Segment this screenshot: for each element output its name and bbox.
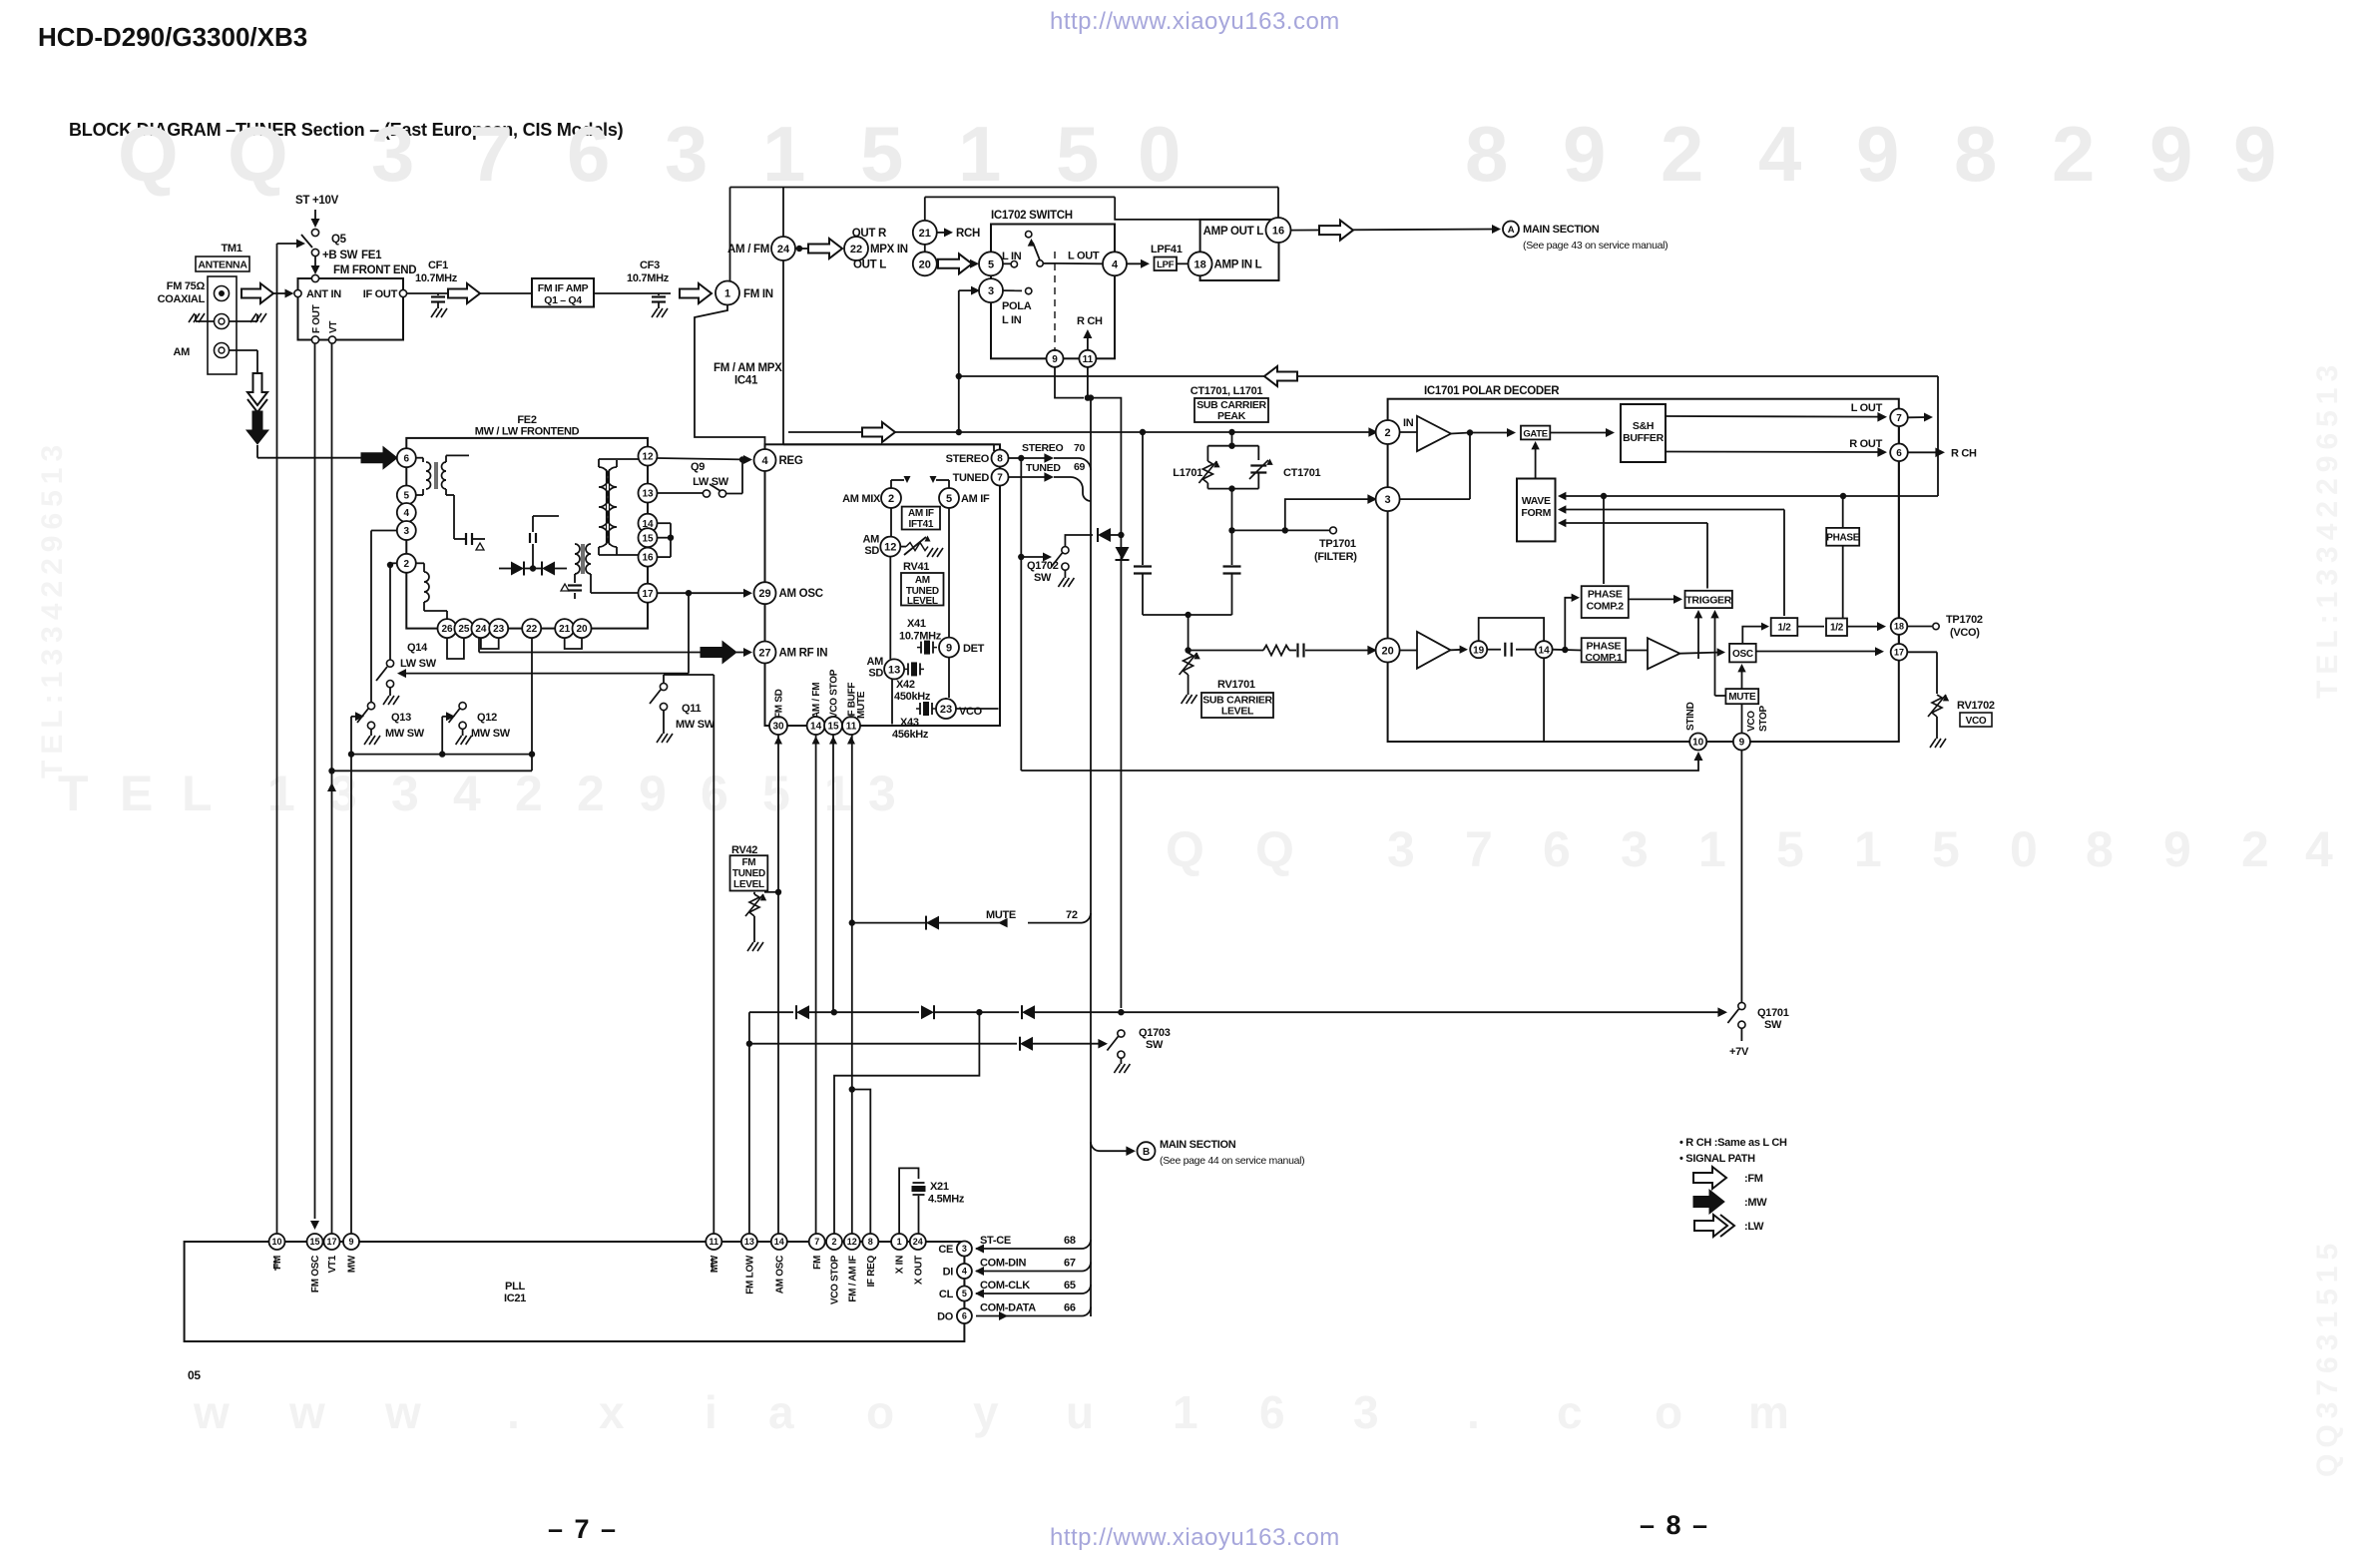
label MUTE rotated pin11 bbox=[856, 691, 867, 719]
transistor switch Q5 bbox=[301, 229, 319, 256]
svg-text:4: 4 bbox=[404, 508, 410, 519]
pin 9 MW of PLL IC21 bbox=[343, 1234, 359, 1273]
pin 14 of IC1701 inner bbox=[1536, 641, 1553, 658]
svg-text:9: 9 bbox=[2149, 110, 2192, 198]
wire pins 9-11 to R CH node bbox=[1055, 367, 1121, 1008]
transformer T1 of FE2 bbox=[416, 455, 469, 495]
transistor switch Q1701 SW bbox=[1727, 1002, 1788, 1058]
pin 24 of FE2 bbox=[471, 619, 490, 638]
label Q12 MW SW bbox=[471, 712, 511, 740]
wire AM jack down bbox=[229, 350, 257, 373]
svg-text:LPF: LPF bbox=[1157, 259, 1175, 270]
wire Q5 to FE1 bbox=[311, 257, 320, 274]
wire waveform input A bbox=[1558, 492, 1938, 500]
svg-text:OSC: OSC bbox=[1732, 649, 1753, 660]
svg-text:Q1702: Q1702 bbox=[1027, 560, 1059, 572]
block PLL IC21 bbox=[185, 1242, 965, 1341]
svg-text:7: 7 bbox=[814, 1237, 819, 1247]
pin 6 R OUT of IC1701 bbox=[1890, 444, 1908, 462]
svg-text:VT1: VT1 bbox=[327, 1255, 338, 1273]
switch inside IC1702 bbox=[1003, 232, 1055, 267]
wire COM-DIN 67 bbox=[975, 1258, 1091, 1277]
svg-text:– 8 –: – 8 – bbox=[1640, 1510, 1709, 1540]
svg-text:ANTENNA: ANTENNA bbox=[198, 259, 247, 271]
svg-text:i: i bbox=[705, 1386, 717, 1438]
svg-text:MW SW: MW SW bbox=[676, 719, 715, 731]
pin 24 AM/FM of IC41 bbox=[727, 237, 795, 260]
svg-text:8: 8 bbox=[1954, 110, 1997, 198]
svg-text:MW: MW bbox=[710, 1255, 720, 1273]
label FM/AM MPX IC41 bbox=[714, 362, 782, 387]
svg-text:STEREO: STEREO bbox=[1022, 442, 1064, 454]
wire ground bus2 bbox=[332, 770, 533, 772]
wire bus MW to PLL pin9 bbox=[348, 717, 354, 1234]
label VCO STOP rotated bbox=[1746, 706, 1769, 732]
svg-text:S&H: S&H bbox=[1633, 420, 1654, 432]
svg-text:1: 1 bbox=[958, 110, 1001, 198]
wire CF1 to FM IF AMP bbox=[480, 292, 532, 294]
svg-text:20: 20 bbox=[919, 259, 931, 270]
svg-text:L OUT: L OUT bbox=[1851, 402, 1883, 414]
antenna connector block bbox=[208, 276, 237, 374]
pin 15 FM OSC of PLL IC21 bbox=[307, 1234, 323, 1293]
pin 2 VCO STOP of PLL IC21 bbox=[826, 1234, 842, 1304]
svg-text:FM IF AMP: FM IF AMP bbox=[538, 282, 589, 294]
wire between dividers bbox=[1797, 626, 1824, 628]
wire IF REQ jog bbox=[852, 1090, 871, 1235]
svg-text:FM: FM bbox=[272, 1256, 283, 1270]
svg-text::LW: :LW bbox=[1744, 1221, 1764, 1233]
wire phasecomp2 riser bbox=[1603, 496, 1605, 584]
wire MPX to pin8 bbox=[783, 444, 994, 451]
svg-text:CL: CL bbox=[939, 1289, 954, 1300]
svg-text:AM RF IN: AM RF IN bbox=[779, 648, 828, 660]
svg-text:VT: VT bbox=[328, 321, 339, 333]
wire POLA feed bbox=[959, 286, 980, 295]
svg-text:5: 5 bbox=[988, 259, 994, 270]
pin 14 of FE2 bbox=[639, 514, 658, 533]
wire OSC to pin17 bbox=[1756, 647, 1884, 656]
ground at antenna left bbox=[189, 313, 214, 322]
svg-text:9: 9 bbox=[1563, 110, 1606, 198]
svg-text:TEL:13342296513: TEL:13342296513 bbox=[36, 439, 69, 778]
crystal X41 10.7MHz bbox=[899, 618, 942, 655]
svg-text:LEVEL: LEVEL bbox=[907, 596, 938, 607]
svg-text:(See page 43 on service manual: (See page 43 on service manual) bbox=[1523, 240, 1667, 252]
pin 4 REG of IC41 bbox=[754, 449, 803, 471]
wire main control bus bbox=[1088, 394, 1094, 1316]
svg-text:STOP: STOP bbox=[1758, 706, 1769, 732]
svg-text:Q: Q bbox=[1166, 821, 1204, 877]
svg-text:FE1: FE1 bbox=[361, 250, 382, 261]
pin 5 of FE2 bbox=[397, 486, 416, 505]
svg-text:DI: DI bbox=[943, 1267, 954, 1279]
svg-text:72: 72 bbox=[1066, 909, 1078, 921]
svg-text:8: 8 bbox=[997, 454, 1003, 465]
wire TP junction to pin3 bbox=[1285, 494, 1377, 530]
label CT1701 L1701 bbox=[1190, 385, 1263, 397]
signal path arrow FM from antenna bbox=[241, 283, 273, 303]
wire link CE-DI-CL-DO bbox=[963, 1257, 965, 1309]
svg-text:AM / FM: AM / FM bbox=[811, 683, 822, 719]
svg-text:5: 5 bbox=[860, 110, 903, 198]
pin 3 CE of PLL IC21 bbox=[938, 1242, 972, 1257]
wire TUNED 69 bbox=[1009, 461, 1092, 501]
svg-text:Q1701: Q1701 bbox=[1757, 1007, 1789, 1019]
svg-text:7: 7 bbox=[469, 110, 512, 198]
svg-text:6: 6 bbox=[1896, 448, 1902, 459]
svg-text:http://www.xiaoyu163.com: http://www.xiaoyu163.com bbox=[1050, 8, 1340, 35]
svg-text:1/2: 1/2 bbox=[1777, 623, 1791, 634]
svg-text:4: 4 bbox=[962, 1267, 967, 1277]
pin 18 of IC1701 bbox=[1891, 618, 1908, 635]
wire PC2 to TRIGGER bbox=[1629, 595, 1682, 604]
block PHASE bbox=[1826, 528, 1860, 546]
wire FE2 pin12 to REG bbox=[658, 455, 753, 464]
svg-text:20: 20 bbox=[576, 624, 588, 635]
block FE1 FM front end bbox=[298, 278, 404, 340]
pin 10 STIND of IC1701 bbox=[1689, 734, 1706, 751]
svg-text:F OUT: F OUT bbox=[311, 304, 322, 333]
signal path arrow FM after CF1 bbox=[448, 283, 480, 303]
svg-text:6: 6 bbox=[567, 110, 610, 198]
svg-text:1: 1 bbox=[267, 766, 295, 821]
dashed mode line of IC1702 bbox=[1054, 252, 1056, 351]
svg-text:17: 17 bbox=[326, 1237, 336, 1247]
pin 29 AM OSC of IC41 bbox=[754, 582, 823, 604]
svg-text:A: A bbox=[1508, 225, 1515, 236]
svg-text:3: 3 bbox=[391, 766, 419, 821]
label Q11 MW SW bbox=[676, 703, 715, 731]
op-amp buffer IN bbox=[1400, 416, 1474, 451]
svg-text:SW: SW bbox=[1034, 572, 1052, 584]
block TRIGGER bbox=[1685, 591, 1732, 608]
svg-text:OUT R: OUT R bbox=[852, 228, 887, 240]
svg-text:.: . bbox=[507, 1386, 520, 1438]
signal path arrow MW into AM RF IN bbox=[701, 642, 752, 664]
label IC1701 POLAR DECODER bbox=[1424, 385, 1560, 397]
pin 23 VCO of IC41 inner bbox=[936, 699, 983, 719]
wire AM RF IN from FE2 bbox=[479, 638, 701, 652]
wire tank to TP1701 bbox=[1228, 489, 1357, 563]
svg-text:DO: DO bbox=[937, 1311, 954, 1323]
svg-text:LEVEL: LEVEL bbox=[1221, 706, 1254, 718]
svg-text:9: 9 bbox=[946, 643, 952, 655]
pin VT of FE1 bbox=[328, 321, 339, 343]
svg-text:21: 21 bbox=[919, 228, 931, 240]
svg-text:10: 10 bbox=[271, 1237, 281, 1247]
pin 24 X OUT of PLL IC21 bbox=[910, 1234, 926, 1285]
pin 20 of FE2 bbox=[573, 619, 592, 638]
wire FE2 pin26-25 U bbox=[447, 638, 464, 659]
tank circuit L1701 CT1701 bbox=[1198, 432, 1272, 492]
wire riser to pin16 AMP OUT bbox=[1277, 188, 1279, 219]
transistor switch Q14 LW SW bbox=[376, 660, 394, 688]
crystal X43 456kHz bbox=[892, 702, 936, 741]
subtitle text bbox=[69, 120, 624, 140]
watermark url top bbox=[1050, 8, 1340, 35]
middle antenna jack bbox=[215, 314, 230, 329]
svg-text:3: 3 bbox=[404, 526, 410, 537]
svg-text:POLA: POLA bbox=[1002, 300, 1032, 312]
svg-text::MW: :MW bbox=[1744, 1197, 1767, 1209]
wire Q14 control line bbox=[397, 669, 689, 678]
svg-text:COM-CLK: COM-CLK bbox=[980, 1280, 1030, 1292]
block IC41 FM/AM MPX bbox=[765, 444, 1001, 726]
pin 1 FM IN of IC41 bbox=[715, 281, 773, 305]
wire PLL pin2 riser bbox=[834, 1012, 979, 1234]
svg-text:SW: SW bbox=[1764, 1019, 1782, 1031]
svg-text:MAIN SECTION: MAIN SECTION bbox=[1523, 224, 1600, 236]
svg-text:X IN: X IN bbox=[895, 1256, 906, 1274]
wire pin4 to LPF bbox=[1127, 259, 1150, 268]
svg-text:15: 15 bbox=[309, 1237, 319, 1247]
svg-text:3: 3 bbox=[329, 766, 357, 821]
svg-text:7: 7 bbox=[1896, 413, 1902, 424]
svg-text:24: 24 bbox=[777, 244, 790, 256]
svg-text:L: L bbox=[182, 766, 213, 821]
svg-text:2: 2 bbox=[577, 766, 605, 821]
svg-text:5: 5 bbox=[1776, 821, 1804, 877]
pin 22 MPX IN of IC1702 bbox=[844, 237, 908, 260]
svg-text:X41: X41 bbox=[907, 618, 926, 630]
svg-text:Q1 – Q4: Q1 – Q4 bbox=[544, 294, 582, 306]
inductor of FE2 oscillator bbox=[416, 563, 447, 619]
svg-text:27: 27 bbox=[758, 647, 770, 659]
svg-text:m: m bbox=[1748, 1386, 1789, 1438]
svg-text:1: 1 bbox=[897, 1237, 902, 1247]
wire riser to pin24 bbox=[782, 188, 784, 238]
svg-text:5: 5 bbox=[1932, 821, 1960, 877]
block label SUB CARRIER PEAK bbox=[1194, 398, 1268, 422]
svg-text:FM / AM MPX: FM / AM MPX bbox=[714, 362, 782, 374]
wire Q1702 feed riser bbox=[1018, 458, 1024, 771]
svg-text:OUT L: OUT L bbox=[853, 259, 886, 271]
wire STIND feed bbox=[1021, 752, 1702, 771]
svg-text:PHASE: PHASE bbox=[1587, 641, 1622, 653]
svg-text:Q11: Q11 bbox=[682, 703, 701, 715]
wire ST+10V down bbox=[311, 210, 320, 228]
svg-text:Q12: Q12 bbox=[477, 712, 497, 724]
svg-text:GATE: GATE bbox=[1523, 428, 1547, 439]
svg-text:LW SW: LW SW bbox=[400, 658, 437, 670]
pin contact POLA bbox=[1002, 287, 1032, 326]
pin 4 of FE2 bbox=[397, 503, 416, 522]
svg-text:TP1701: TP1701 bbox=[1319, 538, 1356, 550]
pin IF OUT of FE1 bbox=[363, 288, 407, 300]
wire pin9 down to Q1701 bbox=[1740, 751, 1742, 1003]
legend R CH note bbox=[1679, 1137, 1787, 1149]
svg-text:BUFFER: BUFFER bbox=[1623, 432, 1664, 444]
wire AM feed to FE2 bbox=[257, 445, 361, 458]
block AMP section bbox=[1200, 220, 1279, 280]
wire FE2 pin13 to Q9 bbox=[658, 492, 704, 494]
svg-text:SW: SW bbox=[1146, 1039, 1164, 1051]
svg-text:– 7 –: – 7 – bbox=[548, 1514, 618, 1544]
pin 4 L OUT of IC1702 bbox=[1103, 252, 1127, 275]
transistor switch Q12 MW SW bbox=[449, 703, 467, 730]
svg-text:QQ37631515: QQ37631515 bbox=[2311, 1238, 2344, 1477]
wire to pin20 with RC bbox=[1189, 644, 1377, 658]
svg-text:AM / FM: AM / FM bbox=[727, 244, 769, 256]
label FM 75ohm COAXIAL bbox=[158, 280, 206, 305]
wire FE2 pin17 AM OSC line bbox=[658, 589, 753, 598]
signal path arrow FM to main bbox=[1319, 221, 1353, 241]
wire 14 to PC1 bbox=[1553, 647, 1582, 653]
label AM bbox=[173, 346, 190, 358]
svg-text:• R CH :Same as L CH: • R CH :Same as L CH bbox=[1679, 1137, 1787, 1149]
block PHASE COMP.1 bbox=[1582, 638, 1626, 664]
divider 1/2 second bbox=[1826, 619, 1847, 637]
svg-text:15: 15 bbox=[642, 533, 654, 544]
node A main section bbox=[1492, 222, 1667, 253]
svg-text:5: 5 bbox=[962, 1289, 967, 1298]
ground below Q13 bbox=[364, 729, 380, 745]
wire GATE from WAVEFORM bbox=[1531, 441, 1539, 479]
svg-text:TUNED: TUNED bbox=[953, 472, 990, 484]
wire top rail from IC41 bbox=[730, 188, 1279, 281]
svg-text:CE: CE bbox=[938, 1244, 953, 1256]
wire pin1 lower path bbox=[695, 305, 765, 449]
transformer T2 of FE2 bbox=[599, 459, 639, 555]
svg-text:B: B bbox=[1143, 1147, 1150, 1158]
pin 17 VT1 of PLL IC21 bbox=[324, 1234, 340, 1273]
svg-text:0: 0 bbox=[1138, 110, 1181, 198]
svg-text:2: 2 bbox=[2241, 821, 2269, 877]
label STIND rotated bbox=[1685, 702, 1696, 731]
svg-text:MAIN SECTION: MAIN SECTION bbox=[1160, 1139, 1236, 1151]
ceramic filter CF1 10.7MHz bbox=[415, 259, 458, 317]
block GATE bbox=[1521, 426, 1550, 440]
svg-text:w: w bbox=[384, 1386, 421, 1438]
crystal X42 450kHz bbox=[894, 662, 931, 703]
label L1701 bbox=[1173, 467, 1202, 479]
svg-text:68: 68 bbox=[1064, 1235, 1076, 1247]
svg-text:MUTE: MUTE bbox=[986, 909, 1016, 921]
svg-text:ST +10V: ST +10V bbox=[295, 195, 339, 207]
svg-text:Q: Q bbox=[1255, 821, 1294, 877]
svg-text:4.5MHz: 4.5MHz bbox=[928, 1194, 965, 1206]
potentiometer RV1702 VCO bbox=[1928, 695, 1995, 748]
pin 3 POLA of IC1702 bbox=[979, 278, 1003, 302]
pin 14 of IC41 bbox=[807, 683, 825, 735]
wire pin17 to RV1702 bbox=[1907, 652, 1937, 694]
svg-text:1: 1 bbox=[1854, 821, 1882, 877]
pin 4 DI of PLL IC21 bbox=[943, 1264, 972, 1279]
FM antenna jack bbox=[215, 286, 230, 301]
svg-text:TEL:13342296513: TEL:13342296513 bbox=[2311, 359, 2344, 699]
signal path arrow FM OUT L bbox=[938, 254, 979, 273]
block PHASE COMP.2 bbox=[1582, 586, 1629, 618]
pin 15 of FE2 bbox=[639, 528, 658, 547]
svg-text:6: 6 bbox=[1543, 821, 1571, 877]
pin 18 AMP IN L bbox=[1189, 252, 1262, 275]
wire OUT R to RCH bbox=[937, 228, 980, 240]
pin 26 of FE2 bbox=[438, 619, 457, 638]
svg-text:AM OSC: AM OSC bbox=[774, 1256, 785, 1294]
svg-text:y: y bbox=[973, 1386, 999, 1438]
wire pin22 riser bbox=[529, 638, 535, 772]
svg-text:14: 14 bbox=[1539, 645, 1551, 656]
svg-text:REG: REG bbox=[779, 455, 803, 467]
svg-text:TUNED: TUNED bbox=[732, 868, 765, 879]
svg-text:11: 11 bbox=[1083, 354, 1094, 365]
wire AM/FM riser bbox=[815, 735, 817, 1235]
svg-text:3: 3 bbox=[1621, 821, 1649, 877]
svg-text:R CH: R CH bbox=[1951, 448, 1977, 460]
svg-text:10.7MHz: 10.7MHz bbox=[899, 631, 942, 643]
svg-text:IC41: IC41 bbox=[734, 375, 758, 387]
svg-text:3: 3 bbox=[868, 766, 896, 821]
pin 12 AM SD of IC41 inner bbox=[862, 534, 900, 558]
svg-text:20: 20 bbox=[1381, 645, 1393, 657]
pin 23 of FE2 bbox=[489, 619, 508, 638]
wire FM bus to Q5 bbox=[277, 240, 306, 249]
svg-text:3: 3 bbox=[962, 1244, 967, 1254]
block IC1702 switch bbox=[991, 225, 1115, 359]
svg-text:AM: AM bbox=[866, 656, 883, 668]
pin 12 FM / AM IF of PLL IC21 bbox=[844, 1234, 860, 1302]
filter LPF41 bbox=[1151, 244, 1190, 270]
wire Q1701 control line bbox=[749, 1005, 1727, 1019]
svg-text:19: 19 bbox=[1473, 645, 1485, 656]
svg-text:X21: X21 bbox=[930, 1181, 949, 1193]
svg-text:X OUT: X OUT bbox=[913, 1256, 924, 1285]
svg-text::FM: :FM bbox=[1744, 1173, 1763, 1185]
svg-text:70: 70 bbox=[1074, 442, 1086, 454]
pin 9 VCO STOP of IC1701 bbox=[1733, 734, 1750, 751]
svg-text:2: 2 bbox=[831, 1237, 836, 1247]
wire R CH output bbox=[1908, 448, 1977, 460]
wire divider to pin18 bbox=[1847, 622, 1886, 631]
signal path arrow FM MPX bbox=[808, 239, 842, 259]
svg-text:IC1702 SWITCH: IC1702 SWITCH bbox=[991, 210, 1073, 222]
svg-text:CT1701, L1701: CT1701, L1701 bbox=[1190, 385, 1263, 397]
svg-text:PEAK: PEAK bbox=[1217, 410, 1246, 422]
svg-text:1: 1 bbox=[1173, 1386, 1198, 1438]
svg-text:2: 2 bbox=[1385, 427, 1391, 439]
wire to GATE bbox=[1470, 428, 1516, 437]
node B main section bbox=[1091, 1139, 1304, 1167]
svg-text:FM / AM IF: FM / AM IF bbox=[847, 1256, 858, 1302]
wire Q12 feed bbox=[442, 712, 455, 754]
svg-text:RV1702: RV1702 bbox=[1957, 700, 1995, 712]
wire L OUT inside bbox=[1055, 262, 1103, 264]
svg-text:29: 29 bbox=[758, 588, 770, 600]
potentiometer RV41 AM TUNED LEVEL bbox=[901, 561, 944, 607]
wire IC41 inner verticals bbox=[890, 508, 998, 725]
svg-text:456kHz: 456kHz bbox=[892, 729, 929, 741]
pin 1 X IN of PLL IC21 bbox=[891, 1234, 907, 1274]
pin 7 L OUT of IC1701 bbox=[1890, 409, 1908, 427]
svg-text:13: 13 bbox=[744, 1237, 754, 1247]
svg-text:w: w bbox=[193, 1386, 230, 1438]
label IC1702 SWITCH bbox=[991, 210, 1073, 222]
pin 27 AM RF IN of IC41 bbox=[754, 642, 828, 664]
label FE1 FM FRONT END bbox=[333, 250, 416, 276]
svg-text:18: 18 bbox=[1894, 622, 1904, 632]
pin 25 of FE2 bbox=[454, 619, 473, 638]
svg-text:o: o bbox=[866, 1386, 894, 1438]
pin 11 of IC1702 bbox=[1079, 350, 1096, 367]
block MUTE bbox=[1725, 689, 1758, 704]
wire pin24 to MPX arrow bbox=[795, 246, 808, 252]
svg-text:1: 1 bbox=[762, 110, 805, 198]
wire VCO STOP riser IC41 bbox=[832, 735, 834, 1013]
pin 21 OUT R bbox=[852, 221, 937, 245]
pin 3 of IC1701 bbox=[1376, 487, 1400, 511]
svg-text:16: 16 bbox=[642, 553, 654, 564]
